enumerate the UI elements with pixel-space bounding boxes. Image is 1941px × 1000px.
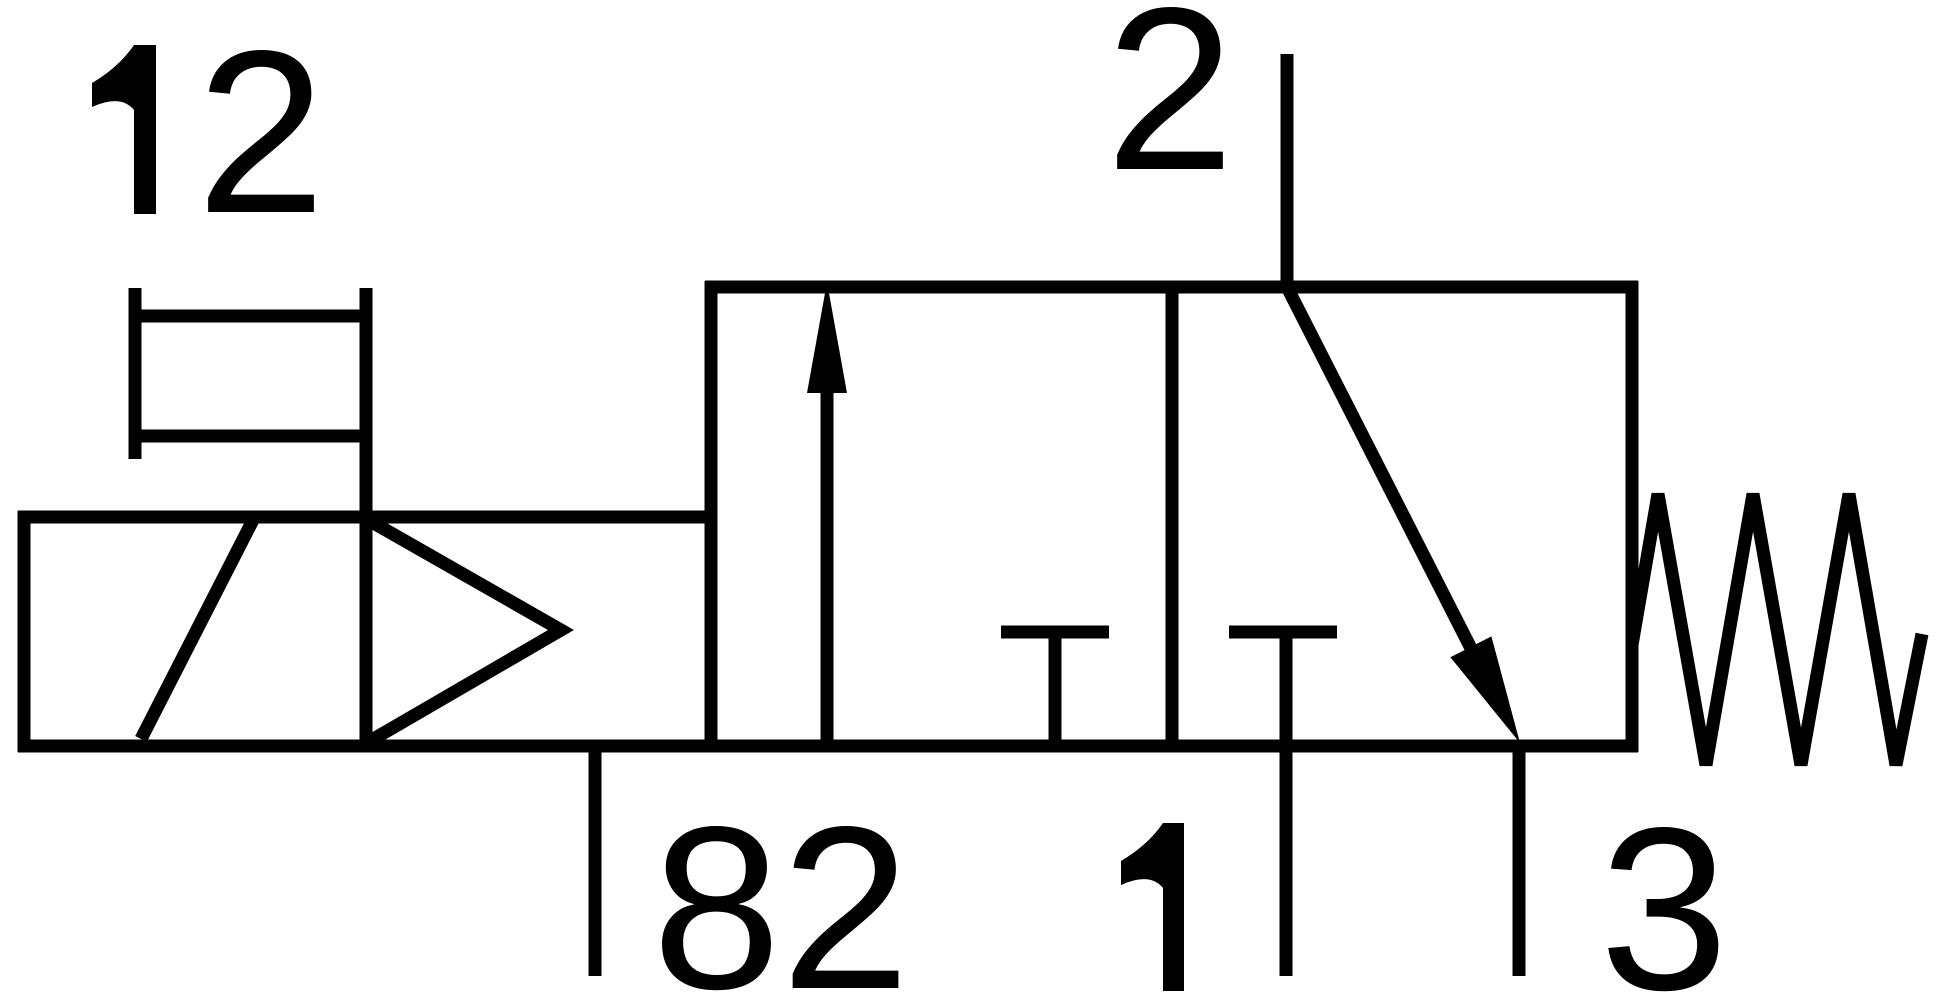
- pilot line upper horizontal: [130, 310, 371, 323]
- wire bottom rail: [18, 740, 1638, 753]
- solenoid coil diagonal: [141, 520, 253, 739]
- wire port 3 stub: [1513, 746, 1526, 976]
- valve body top edge: [705, 281, 1638, 294]
- flow arrow head right square: [1450, 636, 1520, 743]
- port label 12 digit 1: [92, 45, 156, 214]
- svg-text:3: 3: [1599, 780, 1728, 1000]
- port label 1: [1121, 823, 1184, 991]
- wire solenoid section top line: [18, 511, 717, 524]
- flow diagonal shaft right square: [1287, 287, 1481, 668]
- wire port 82 stub: [589, 746, 602, 976]
- blocked port T bar left square: [1001, 626, 1109, 639]
- valve body middle divider: [1166, 287, 1179, 746]
- blocked port T bar right square: [1229, 626, 1337, 639]
- flow arrow shaft left square: [821, 390, 834, 746]
- svg-text:2: 2: [196, 3, 325, 262]
- pilot amplifier triangle: [370, 521, 561, 741]
- valve body left edge: [705, 281, 718, 752]
- spring return: [1632, 494, 1922, 765]
- wire port 1 stub with T stem: [1280, 632, 1293, 976]
- svg-text:82: 82: [652, 779, 910, 1000]
- blocked port T stem left square: [1049, 632, 1062, 746]
- flow arrow head left square: [807, 282, 847, 393]
- svg-text:2: 2: [1105, 0, 1234, 219]
- solenoid box left edge: [18, 511, 31, 752]
- node divider between solenoid and pilot amplifier: [360, 288, 373, 746]
- valve body right edge: [1626, 281, 1639, 752]
- pilot line left vertical: [129, 288, 142, 459]
- wire port 2 line: [1281, 54, 1294, 287]
- pilot line lower horizontal: [130, 430, 371, 443]
